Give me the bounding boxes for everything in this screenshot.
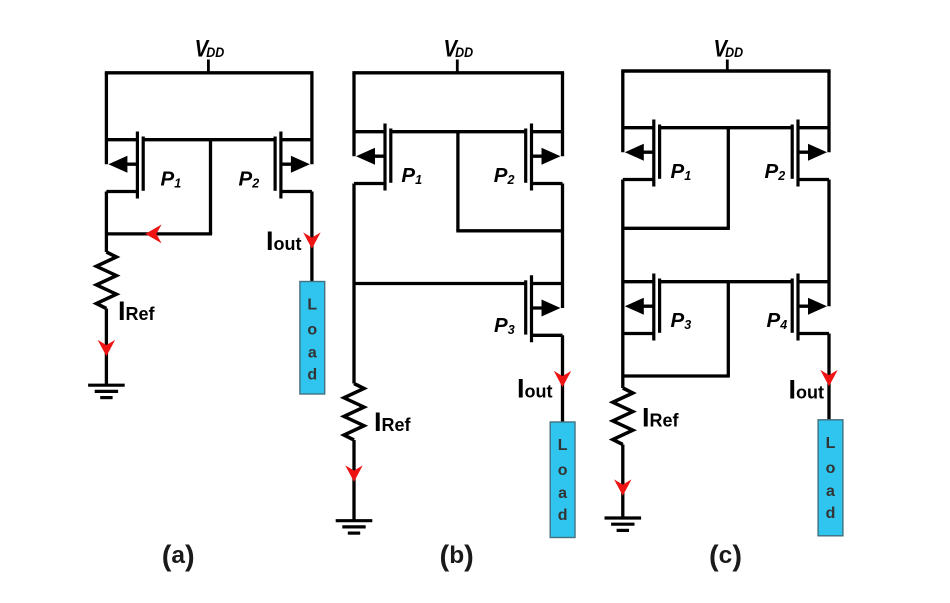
svg-text:a: a <box>308 345 317 362</box>
svg-text:(a): (a) <box>162 540 195 572</box>
svg-text:DD: DD <box>206 45 224 60</box>
svg-text:d: d <box>558 507 568 524</box>
svg-text:o: o <box>307 322 317 339</box>
svg-text:DD: DD <box>455 45 473 60</box>
svg-text:o: o <box>826 460 836 477</box>
svg-text:d: d <box>307 367 317 384</box>
svg-text:d: d <box>826 505 836 522</box>
svg-text:(b): (b) <box>440 540 474 572</box>
svg-text:a: a <box>558 485 567 502</box>
svg-text:L: L <box>826 435 836 452</box>
svg-text:o: o <box>558 462 568 479</box>
svg-text:(c): (c) <box>709 540 742 572</box>
svg-text:a: a <box>826 483 835 500</box>
svg-text:L: L <box>558 437 568 454</box>
svg-text:DD: DD <box>725 45 743 60</box>
svg-text:L: L <box>307 297 317 314</box>
